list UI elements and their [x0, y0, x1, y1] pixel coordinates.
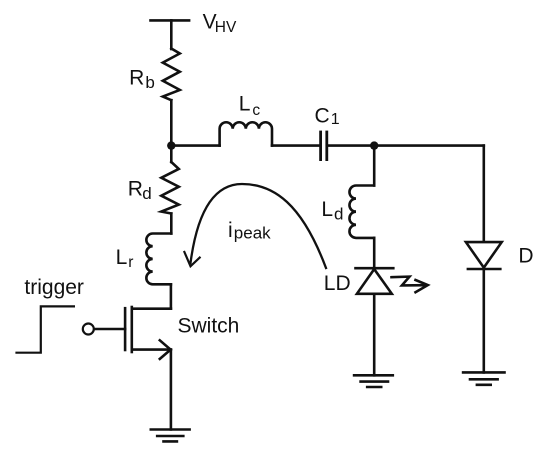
svg-text:R: R [128, 178, 143, 201]
svg-text:d: d [334, 205, 343, 224]
svg-text:R: R [129, 67, 144, 90]
svg-text:peak: peak [234, 224, 271, 243]
svg-text:C: C [315, 105, 330, 128]
svg-text:HV: HV [215, 19, 237, 36]
svg-text:1: 1 [331, 111, 340, 128]
svg-text:LD: LD [324, 272, 351, 295]
svg-text:i: i [228, 219, 233, 242]
svg-text:L: L [116, 246, 128, 269]
svg-text:d: d [142, 184, 151, 203]
svg-text:L: L [239, 93, 251, 116]
svg-text:trigger: trigger [24, 276, 84, 299]
svg-text:D: D [518, 244, 533, 267]
svg-text:b: b [145, 73, 154, 92]
svg-text:r: r [128, 254, 133, 271]
svg-text:L: L [321, 198, 333, 221]
svg-text:Switch: Switch [178, 314, 240, 337]
svg-text:c: c [252, 102, 260, 119]
